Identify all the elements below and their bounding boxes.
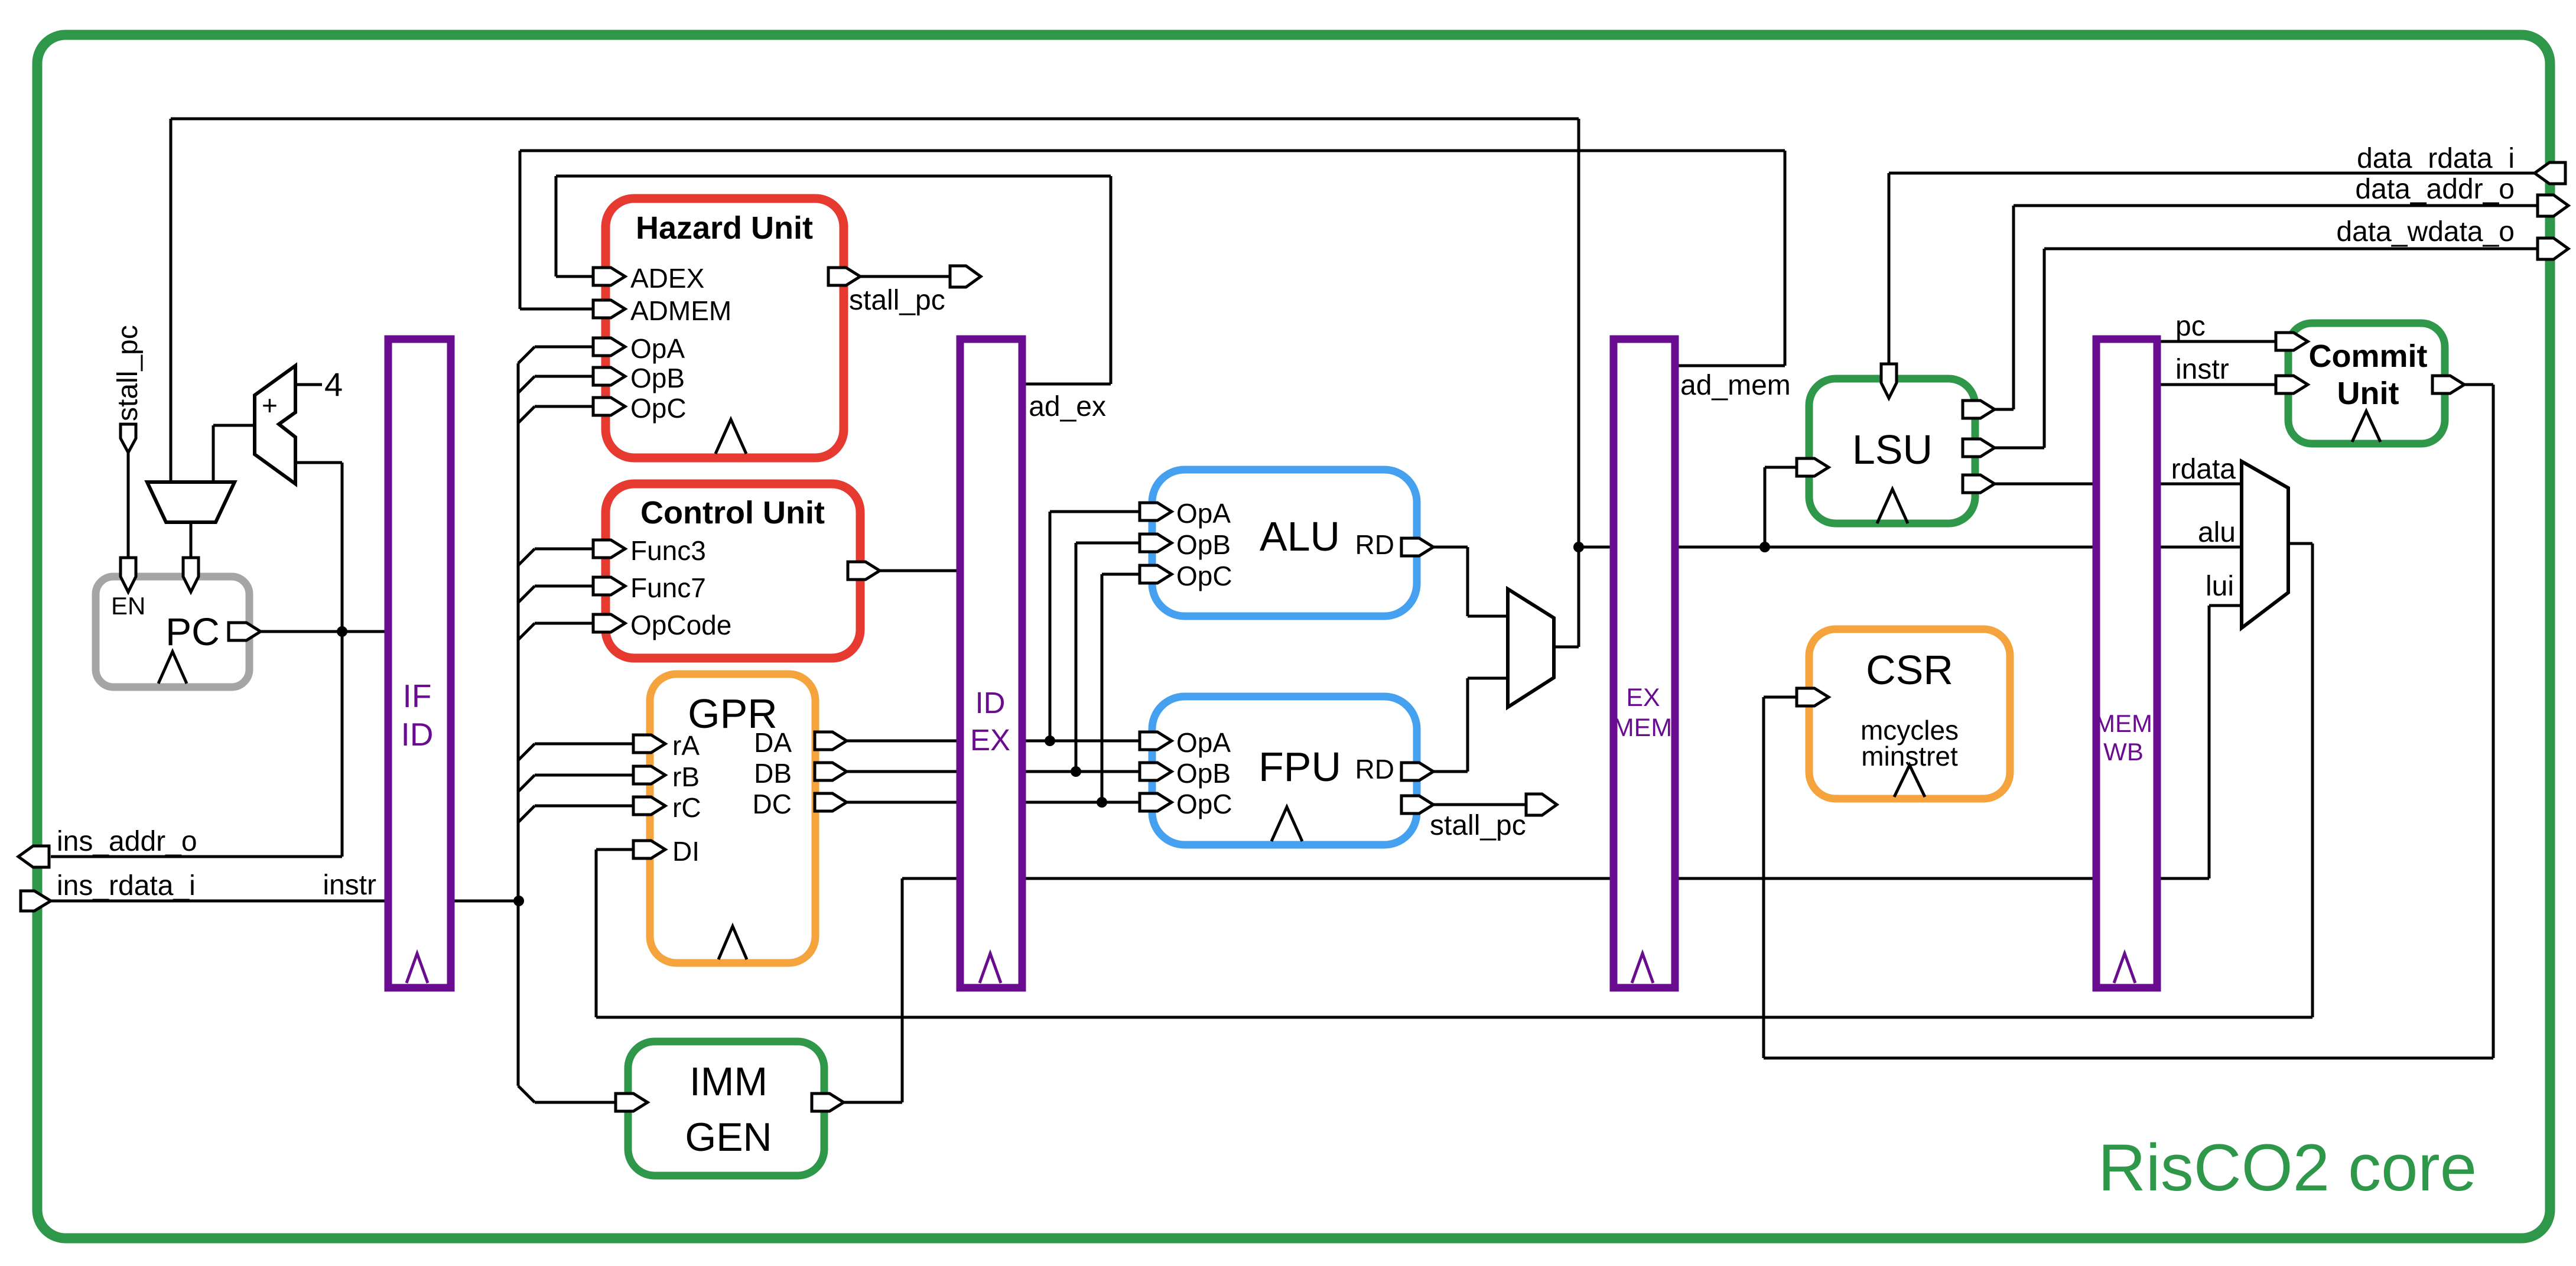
svg-text:OpC: OpC — [1176, 789, 1232, 819]
svg-text:stall_pc: stall_pc — [112, 325, 144, 421]
svg-text:ADEX: ADEX — [630, 263, 704, 294]
svg-text:ins_addr_o: ins_addr_o — [57, 826, 197, 857]
svg-text:stall_pc: stall_pc — [849, 285, 945, 316]
svg-text:instr: instr — [2175, 354, 2229, 385]
svg-text:IMM: IMM — [689, 1059, 767, 1104]
svg-text:Commit: Commit — [2309, 339, 2428, 374]
svg-text:Control Unit: Control Unit — [640, 495, 825, 531]
svg-text:OpB: OpB — [1176, 758, 1231, 789]
svg-text:Func7: Func7 — [630, 572, 706, 603]
svg-text:FPU: FPU — [1258, 744, 1341, 790]
svg-text:DC: DC — [753, 789, 792, 819]
svg-text:minstret: minstret — [1861, 741, 1958, 772]
svg-text:PC: PC — [165, 610, 220, 653]
svg-text:OpA: OpA — [1176, 727, 1231, 758]
svg-text:OpB: OpB — [1176, 529, 1231, 560]
svg-text:pc: pc — [2175, 311, 2206, 342]
svg-text:OpC: OpC — [630, 393, 687, 424]
svg-text:data_wdata_o: data_wdata_o — [2336, 216, 2515, 248]
svg-text:ADMEM: ADMEM — [630, 295, 731, 326]
svg-text:ALU: ALU — [1260, 513, 1340, 559]
svg-text:instr: instr — [323, 870, 376, 901]
svg-text:DI: DI — [672, 836, 700, 867]
svg-text:OpB: OpB — [630, 363, 685, 393]
svg-text:EN: EN — [111, 592, 145, 620]
svg-text:RD: RD — [1355, 529, 1394, 560]
svg-text:Func3: Func3 — [630, 535, 706, 566]
svg-text:alu: alu — [2198, 517, 2236, 548]
svg-text:DA: DA — [754, 727, 792, 758]
svg-text:EX: EX — [1626, 684, 1660, 712]
svg-text:rdata: rdata — [2171, 454, 2236, 485]
svg-text:LSU: LSU — [1852, 427, 1933, 473]
svg-text:data_rdata_i: data_rdata_i — [2357, 143, 2515, 174]
svg-text:IF: IF — [403, 678, 432, 714]
svg-text:ad_mem: ad_mem — [1680, 370, 1791, 401]
svg-text:DB: DB — [754, 758, 792, 789]
svg-text:RisCO2 core: RisCO2 core — [2098, 1131, 2477, 1205]
svg-text:Hazard Unit: Hazard Unit — [636, 210, 813, 246]
svg-text:stall_pc: stall_pc — [1430, 810, 1526, 841]
svg-text:OpCode: OpCode — [630, 610, 731, 640]
svg-text:EX: EX — [970, 723, 1010, 757]
svg-text:rA: rA — [672, 730, 700, 761]
svg-text:MEM: MEM — [1613, 714, 1672, 742]
svg-text:CSR: CSR — [1866, 647, 1953, 693]
svg-text:rB: rB — [672, 761, 700, 792]
svg-text:data_addr_o: data_addr_o — [2355, 174, 2515, 205]
svg-text:ad_ex: ad_ex — [1029, 391, 1106, 422]
svg-text:ID: ID — [975, 686, 1006, 720]
svg-text:OpA: OpA — [1176, 498, 1231, 529]
svg-text:OpA: OpA — [630, 333, 685, 364]
svg-text:ID: ID — [401, 716, 434, 753]
svg-text:WB: WB — [2103, 738, 2144, 766]
svg-text:OpC: OpC — [1176, 561, 1232, 591]
svg-text:RD: RD — [1355, 754, 1394, 785]
svg-text:4: 4 — [324, 366, 343, 403]
svg-text:lui: lui — [2206, 571, 2234, 602]
svg-text:MEM: MEM — [2094, 710, 2152, 737]
svg-text:GEN: GEN — [685, 1115, 772, 1160]
svg-text:ins_rdata_i: ins_rdata_i — [57, 870, 196, 902]
svg-text:+: + — [262, 390, 278, 421]
svg-text:Unit: Unit — [2337, 376, 2399, 411]
svg-text:rC: rC — [672, 792, 701, 823]
